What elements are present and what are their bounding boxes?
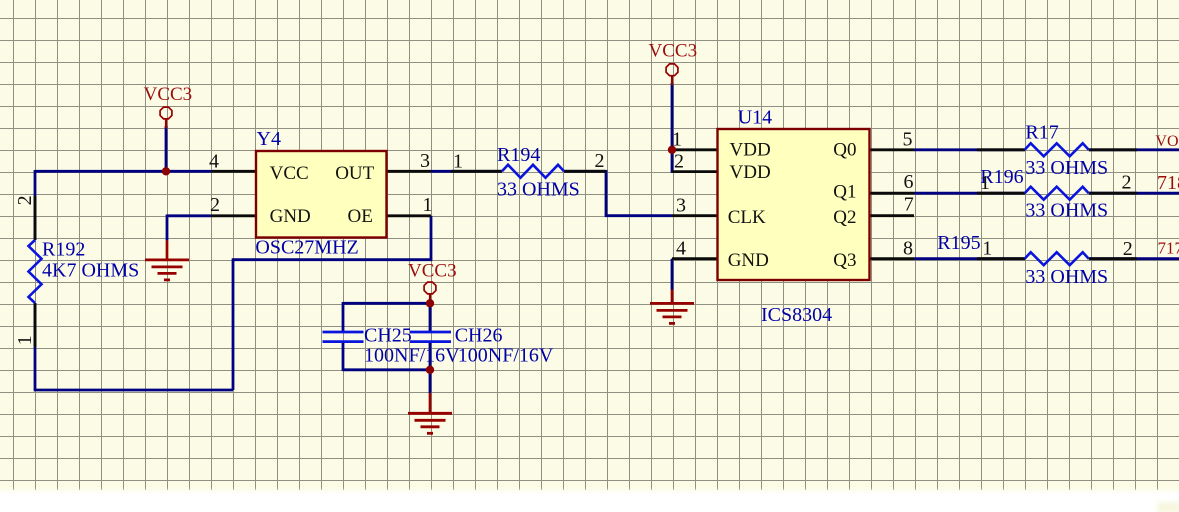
svg-text:33 OHMS: 33 OHMS: [497, 179, 580, 201]
svg-text:GND: GND: [728, 250, 769, 271]
svg-text:6: 6: [904, 171, 914, 193]
svg-text:ICS8304: ICS8304: [761, 304, 832, 326]
svg-text:100NF/16V: 100NF/16V: [458, 345, 554, 367]
svg-text:OE: OE: [348, 206, 373, 227]
svg-text:3: 3: [676, 194, 686, 216]
svg-text:33 OHMS: 33 OHMS: [1025, 266, 1108, 288]
svg-text:2: 2: [595, 150, 605, 172]
svg-text:7: 7: [904, 194, 914, 216]
svg-text:2: 2: [210, 194, 220, 216]
svg-text:GND: GND: [270, 206, 311, 227]
svg-text:VCC3: VCC3: [649, 41, 698, 62]
svg-text:OUT: OUT: [335, 163, 374, 184]
svg-text:Q0: Q0: [833, 139, 856, 160]
svg-text:1: 1: [982, 238, 992, 260]
svg-text:R192: R192: [42, 239, 85, 261]
svg-text:Q1: Q1: [833, 182, 856, 203]
svg-text:33 OHMS: 33 OHMS: [1025, 157, 1108, 179]
svg-text:Q3: Q3: [833, 250, 856, 271]
svg-text:VDD: VDD: [730, 162, 771, 183]
svg-text:4: 4: [209, 151, 219, 173]
svg-text:CH25: CH25: [364, 324, 412, 346]
svg-text:2: 2: [1123, 238, 1133, 260]
svg-text:VCC3: VCC3: [408, 260, 457, 281]
svg-text:2: 2: [674, 150, 684, 172]
svg-text:3: 3: [420, 150, 430, 172]
svg-text:2: 2: [1122, 171, 1132, 193]
svg-text:Q2: Q2: [833, 207, 856, 228]
svg-text:1: 1: [453, 151, 463, 173]
svg-text:4K7 OHMS: 4K7 OHMS: [42, 260, 139, 282]
svg-text:R17: R17: [1025, 122, 1058, 144]
svg-text:1: 1: [980, 172, 990, 194]
svg-text:Y4: Y4: [257, 128, 281, 150]
svg-text:8: 8: [903, 237, 913, 259]
svg-text:5: 5: [903, 129, 913, 151]
svg-text:VCC3: VCC3: [144, 84, 193, 105]
svg-text:100NF/16V: 100NF/16V: [364, 345, 460, 367]
svg-text:R194: R194: [497, 144, 540, 166]
svg-text:1: 1: [672, 129, 682, 151]
svg-text:1: 1: [423, 194, 433, 216]
svg-text:717: 717: [1158, 239, 1179, 258]
svg-text:CH26: CH26: [455, 324, 503, 346]
svg-text:CLK: CLK: [728, 207, 766, 228]
svg-text:1: 1: [14, 335, 36, 345]
svg-text:33 OHMS: 33 OHMS: [1025, 200, 1108, 222]
svg-text:VOUT: VOUT: [1155, 133, 1179, 150]
svg-text:2: 2: [14, 195, 36, 205]
svg-text:R195: R195: [937, 232, 980, 254]
svg-text:VDD: VDD: [730, 139, 771, 160]
svg-text:OSC27MHZ: OSC27MHZ: [255, 237, 358, 259]
svg-text:U14: U14: [738, 107, 772, 129]
svg-text:718: 718: [1157, 172, 1179, 194]
svg-text:4: 4: [676, 237, 686, 259]
svg-text:VCC: VCC: [270, 163, 309, 184]
